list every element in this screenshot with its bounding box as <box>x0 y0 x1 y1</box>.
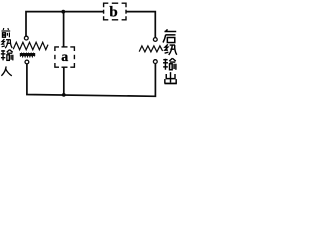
svg-text:b: b <box>109 5 117 21</box>
svg-text:a: a <box>61 50 68 65</box>
